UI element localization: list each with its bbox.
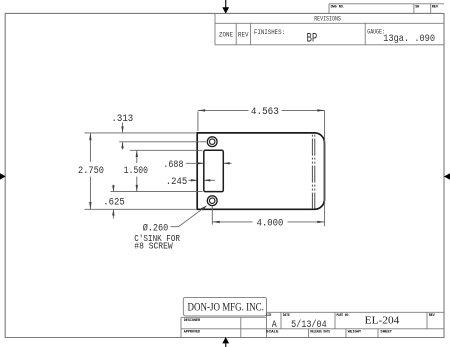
- revisions table grid: [215, 13, 444, 44]
- svg-text:SIZE: SIZE: [266, 314, 271, 318]
- title block field labels: [184, 314, 436, 335]
- top edge cell labels: [331, 6, 439, 10]
- svg-text:SCALE: SCALE: [266, 331, 278, 335]
- zone marker top: [222, 0, 229, 14]
- svg-text:GAUGE:: GAUGE:: [367, 28, 385, 35]
- svg-text:DESIGNER: DESIGNER: [184, 319, 201, 323]
- dimension .245 cutout offset: [166, 177, 215, 188]
- svg-text:13ga. .090: 13ga. .090: [383, 33, 435, 45]
- plate outline: [197, 133, 324, 209]
- svg-text:#8 SCREW: #8 SCREW: [134, 241, 173, 251]
- zone marker left: [0, 173, 6, 179]
- hole callout leader: [171, 205, 208, 226]
- svg-text:.245: .245: [166, 177, 187, 188]
- svg-text:ZONE: ZONE: [219, 32, 233, 39]
- bottom countersunk hole: [207, 196, 217, 206]
- top countersunk hole: [207, 137, 217, 147]
- svg-text:SHEET: SHEET: [380, 331, 392, 335]
- svg-text:REV: REV: [429, 314, 436, 318]
- svg-text:1.500: 1.500: [124, 166, 148, 177]
- svg-text:5/13/04: 5/13/04: [291, 319, 327, 331]
- svg-text:4.563: 4.563: [251, 107, 279, 118]
- svg-text:EL-204: EL-204: [365, 315, 400, 326]
- svg-text:BP: BP: [307, 31, 318, 46]
- zone marker bottom: [222, 337, 229, 347]
- svg-text:DON-JO MFG. INC.: DON-JO MFG. INC.: [188, 302, 264, 314]
- title block grid: [181, 297, 444, 337]
- svg-text:.688: .688: [163, 160, 183, 171]
- svg-text:2.750: 2.750: [78, 166, 104, 177]
- top edge partial title cells: [329, 4, 444, 14]
- svg-text:PART NO.: PART NO.: [337, 314, 351, 318]
- svg-text:DATE: DATE: [283, 314, 290, 318]
- bend phantom centerlines: [312, 134, 314, 209]
- svg-text:FINISHES:: FINISHES:: [254, 29, 285, 36]
- svg-text:WEIGHT: WEIGHT: [348, 331, 361, 335]
- dimension 4.000 hole to edge: [212, 206, 324, 229]
- svg-text:SH: SH: [415, 6, 419, 10]
- svg-text:REV: REV: [432, 6, 439, 10]
- dimension .625 bottom offset: [103, 185, 124, 219]
- svg-text:4.000: 4.000: [257, 218, 284, 229]
- svg-text:Ø.260: Ø.260: [143, 222, 169, 234]
- svg-text:REVISIONS: REVISIONS: [314, 16, 341, 23]
- zone marker right: [444, 173, 450, 179]
- svg-text:.313: .313: [112, 114, 134, 125]
- dimension 1.500 cutout height: [111, 150, 203, 191]
- svg-text:.625: .625: [103, 197, 124, 208]
- dimension .688 cutout width: [163, 160, 231, 171]
- svg-text:DWG NO.: DWG NO.: [331, 6, 345, 10]
- dimension .313 hole offset: [112, 114, 207, 150]
- dimension 2.750 height: [78, 133, 196, 209]
- latch rectangular cutout: [204, 150, 224, 191]
- svg-text:RELEASE DATE: RELEASE DATE: [310, 331, 330, 335]
- dimension 4.563 width: [198, 107, 325, 226]
- svg-text:APPROVED: APPROVED: [184, 331, 200, 335]
- svg-text:REV: REV: [238, 32, 249, 39]
- svg-text:A: A: [272, 320, 277, 331]
